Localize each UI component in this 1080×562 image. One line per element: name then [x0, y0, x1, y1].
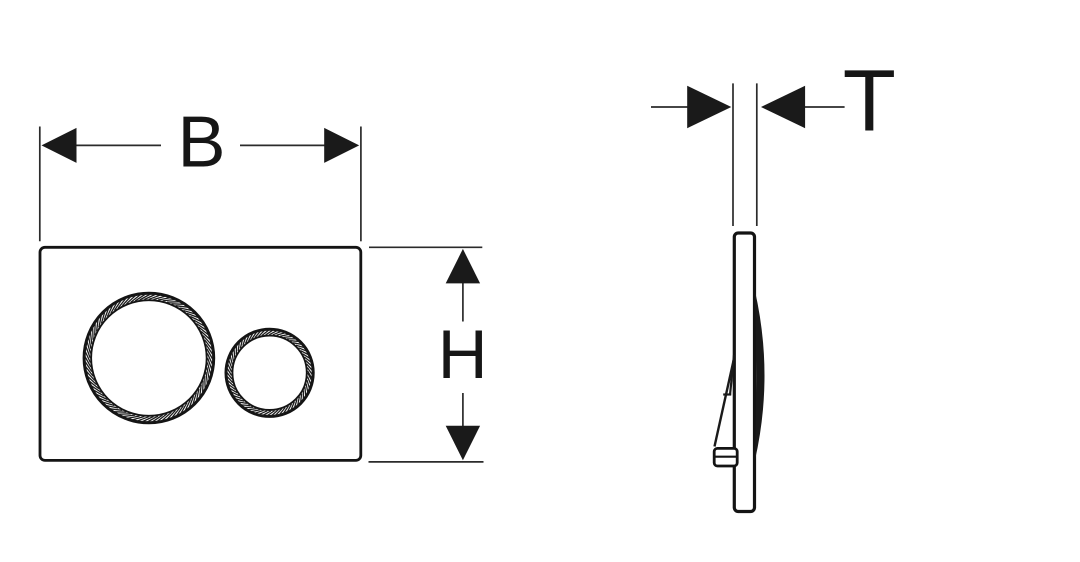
small button outer ring — [226, 329, 313, 416]
side view: mounting block midline — [714, 456, 738, 458]
dimension H: bottom arrowhead — [446, 426, 480, 461]
dimension B: right extension line — [360, 127, 362, 242]
large button inner ring — [91, 300, 207, 416]
front view: flush plate outline — [40, 247, 361, 460]
dimension T: right line — [804, 106, 845, 108]
dimension H: bottom extension line — [369, 461, 484, 463]
side view: lever arm long edge — [715, 359, 735, 447]
side view: plate profile — [734, 233, 754, 512]
dimension H: top extension line — [369, 246, 482, 248]
svg-text:B: B — [177, 103, 225, 183]
dimension H: lower line segment — [462, 393, 464, 428]
dimension H: upper line segment — [462, 281, 464, 322]
side view: convex front face arc — [755, 291, 765, 460]
large button outer ring — [84, 293, 214, 423]
svg-text:T: T — [843, 53, 896, 150]
dimension T: right arrowhead (points left) — [761, 86, 805, 128]
side view: mounting block — [714, 448, 737, 466]
small button ring hatching — [226, 330, 313, 417]
dimension T: left arrowhead (points right) — [687, 86, 731, 128]
dimension B: left extension line — [39, 127, 41, 242]
dimension T: left extension line — [732, 83, 734, 226]
dimension H: top arrowhead — [446, 249, 480, 284]
dimension T: left line — [651, 106, 689, 108]
dimension T: right extension line — [756, 83, 758, 226]
side view: lever crossbar — [723, 393, 731, 395]
dimension B: left arrowhead — [42, 128, 77, 163]
small button inner ring — [232, 336, 306, 410]
side view: lever arm short edge — [730, 355, 734, 395]
dimension B: right arrowhead — [324, 128, 359, 163]
dimension B: left line segment — [74, 144, 161, 146]
large button ring hatching — [84, 294, 213, 423]
svg-text:H: H — [438, 316, 488, 393]
dimension B: right line segment — [240, 144, 327, 146]
